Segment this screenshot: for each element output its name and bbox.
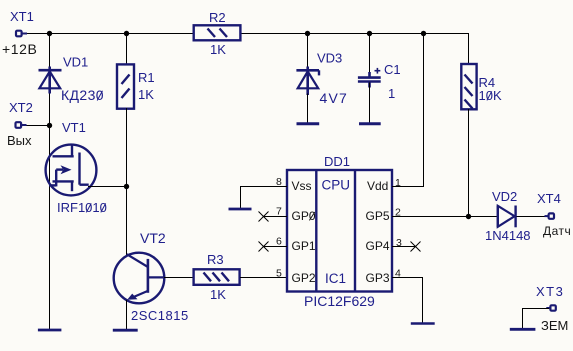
junction dot rail/VD3 [305, 31, 310, 36]
svg-text:XT4: XT4 [537, 191, 561, 206]
resistor R4 [461, 64, 502, 109]
svg-text:R3: R3 [207, 252, 224, 267]
svg-text:ЗЕМ: ЗЕМ [541, 318, 568, 333]
svg-text:XT2: XT2 [9, 100, 33, 115]
wire XT3 to ground [523, 309, 550, 329]
terminal XT1 [2, 9, 38, 57]
svg-text:1K: 1K [138, 87, 154, 102]
junction dot rail/XT1 branch [47, 31, 52, 36]
wire XT2 to left rail [27, 125, 51, 127]
wire Vss pin8 to ground [241, 187, 288, 209]
ground Vss [229, 208, 252, 211]
svg-text:VD3: VD3 [317, 51, 342, 66]
svg-text:DD1: DD1 [324, 154, 350, 169]
svg-text:Vdd: Vdd [367, 179, 388, 193]
junction dot XT2 [47, 123, 52, 128]
svg-text:VD2: VD2 [492, 189, 517, 204]
svg-text:Датч: Датч [543, 224, 571, 238]
junction dot VT1/R1 [124, 184, 129, 189]
wire left rail from XT1 junction down to ground [49, 33, 51, 330]
svg-text:C1: C1 [384, 62, 401, 77]
ground GP3 [411, 322, 435, 325]
wire VT2 collector riser [126, 186, 128, 255]
capacitor C1 riser [369, 34, 371, 77]
pin6 stub with x [259, 242, 288, 252]
svg-text:1N4148: 1N4148 [485, 228, 531, 243]
resistor R1 [117, 64, 155, 108]
junction dot rail/R1 [124, 31, 129, 36]
chip pin names [292, 179, 390, 285]
resistor R2 [194, 10, 241, 57]
wire VD3 to ground [307, 94, 309, 123]
svg-text:3: 3 [396, 237, 402, 249]
wire GP3 pin4 down to ground [392, 278, 423, 323]
svg-text:5: 5 [276, 268, 282, 280]
svg-text:IRF1010: IRF1010 [57, 200, 107, 215]
svg-text:VD1: VD1 [63, 55, 88, 70]
zener VD3 riser top [307, 34, 309, 67]
svg-text:+12В: +12В [2, 41, 38, 57]
svg-text:XT3: XT3 [536, 284, 564, 299]
svg-text:4V7: 4V7 [320, 90, 349, 106]
svg-text:GP3: GP3 [366, 271, 390, 285]
ground under VD3 [297, 122, 320, 125]
svg-text:Vss: Vss [292, 179, 312, 193]
svg-text:VT2: VT2 [140, 230, 166, 246]
svg-text:6: 6 [276, 236, 282, 248]
wire R4 down to GP5 [468, 109, 470, 216]
wire VT1 source to junction [88, 186, 127, 188]
zener diode VD3 [296, 51, 348, 107]
svg-text:1K: 1K [210, 42, 226, 57]
wire top rail right segment [240, 33, 469, 35]
transistor VT2 (2SC1815) [114, 230, 189, 323]
wire top rail corner to R4 [468, 33, 470, 64]
junction dot rail/Vdd riser [421, 31, 426, 36]
wire VT2 base to R3 [164, 277, 194, 279]
transistor VT1 (MOSFET IRF1010) [46, 120, 107, 215]
ground XT3 [510, 328, 536, 331]
svg-text:GP5: GP5 [366, 209, 390, 223]
ground under VT2 [113, 329, 138, 332]
wire top rail left segment [24, 33, 194, 35]
svg-text:CPU: CPU [322, 178, 351, 193]
svg-text:XT1: XT1 [10, 9, 34, 24]
svg-text:7: 7 [276, 206, 282, 218]
wire R1 bottom riser [126, 108, 128, 186]
wire R3 to chip pin5 [240, 277, 287, 279]
svg-text:GP2: GP2 [292, 271, 316, 285]
svg-text:Вых: Вых [7, 133, 32, 148]
terminal XT4 [537, 191, 571, 238]
svg-text:1K: 1K [210, 287, 226, 302]
svg-text:R1: R1 [138, 70, 155, 85]
pin3 stub with x [392, 242, 421, 252]
ground under C1 [359, 122, 381, 125]
diode VD2 [485, 189, 531, 243]
svg-text:IC1: IC1 [325, 271, 346, 286]
wire VT2 emitter down [126, 300, 128, 330]
svg-text:GP1: GP1 [292, 239, 316, 253]
chip pin numbers [276, 176, 402, 280]
wire GP5 pin2 to VD2 [392, 216, 497, 218]
resistor R3 [194, 252, 240, 302]
wire C1 to ground [369, 83, 371, 123]
terminal XT3 [536, 284, 568, 333]
capacitor C1 [358, 62, 401, 101]
svg-text:R2: R2 [209, 10, 226, 25]
diode VD1 [39, 55, 105, 104]
terminal XT2 [7, 100, 33, 148]
svg-text:1: 1 [388, 86, 395, 101]
junction dot R4/GP5 [466, 214, 471, 219]
wire R1 top riser [126, 34, 128, 65]
pin7 stub with x [259, 212, 288, 222]
chip DD1 outline [287, 154, 392, 309]
svg-text:VT1: VT1 [62, 120, 86, 135]
svg-text:10K: 10K [479, 88, 502, 103]
wire Vdd pin1 riser [392, 33, 424, 187]
wire VD2 to XT4 [517, 216, 549, 218]
junction dot rail/C1 [367, 31, 372, 36]
svg-text:2SC1815: 2SC1815 [131, 308, 189, 323]
svg-text:PIC12F629: PIC12F629 [304, 293, 375, 309]
svg-text:GP4: GP4 [366, 239, 390, 253]
ground under left rail [38, 329, 62, 332]
